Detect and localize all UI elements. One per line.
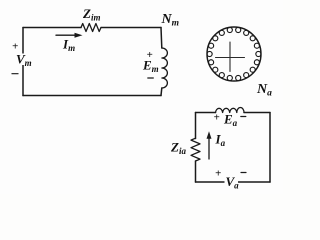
wire: left mesh top, source side to resistor <box>23 27 81 29</box>
machine stator outline <box>207 27 261 81</box>
svg-text:Zia: Zia <box>170 140 186 157</box>
svg-text:Im: Im <box>62 37 75 54</box>
svg-text:Zim: Zim <box>82 6 100 23</box>
label - (E_a polarity) <box>241 116 246 118</box>
machine axis cross horizontal <box>216 57 245 59</box>
label - (E_m polarity) <box>148 77 154 79</box>
resistor Z_im <box>81 24 101 32</box>
inductor E_a (armature winding) <box>216 108 245 113</box>
wire: armature mesh left upper segment <box>195 113 197 139</box>
label - (V_m polarity) <box>12 73 18 75</box>
machine axis cross vertical <box>229 42 231 72</box>
svg-text:Va: Va <box>226 174 240 191</box>
current arrow I_m <box>56 34 77 36</box>
wire: armature mesh left lower segment <box>195 161 197 182</box>
svg-text:Na: Na <box>256 82 272 99</box>
svg-text:+: + <box>215 168 221 180</box>
current arrow I_a <box>208 138 210 159</box>
label V_m (over wire gap) <box>15 54 30 66</box>
wire: armature mesh right side <box>269 113 271 183</box>
svg-text:Ia: Ia <box>215 132 226 149</box>
wire: armature mesh top-right <box>244 112 270 114</box>
stator slot conductors (ring of circles) <box>207 27 261 80</box>
label - (V_a polarity) <box>241 172 246 174</box>
wire: armature mesh top-left <box>196 112 216 114</box>
svg-text:Ea: Ea <box>223 112 238 129</box>
svg-text:Nm: Nm <box>161 12 180 29</box>
wire: left mesh bottom <box>23 95 161 97</box>
wire: left mesh top, resistor to node N_m <box>101 27 161 29</box>
wire: left mesh left side <box>22 28 24 96</box>
wire: armature mesh bottom <box>196 181 271 183</box>
label V_a (over wire gap) <box>225 177 239 188</box>
svg-text:Em: Em <box>142 58 159 75</box>
svg-text:+: + <box>214 112 220 124</box>
wire: right side upper segment <box>160 28 163 49</box>
impedance Z_ia (zigzag) <box>191 138 200 161</box>
inductor E_m (winding) <box>162 48 168 88</box>
wire: right side lower segment <box>160 88 163 96</box>
